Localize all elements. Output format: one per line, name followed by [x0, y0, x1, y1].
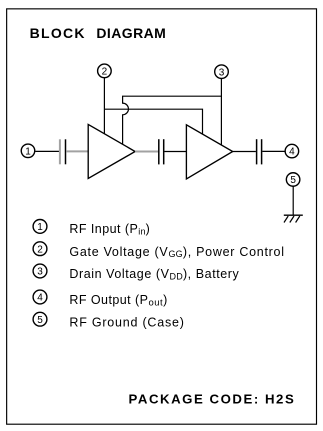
legend pin 4 circle: [33, 290, 47, 304]
node 4: [285, 144, 299, 158]
svg-text:5: 5: [37, 315, 43, 326]
wire VGG branch to A2: [104, 109, 202, 134]
svg-text:3: 3: [219, 67, 225, 78]
node 2: [98, 64, 112, 78]
capacitor C3: [257, 139, 262, 164]
wire C2 to amp A2: [164, 151, 186, 153]
wire VDD branch to A1 with hop over VGG line: [123, 96, 222, 144]
capacitor C1: [60, 139, 66, 164]
svg-text:1: 1: [37, 222, 43, 233]
svg-text:5: 5: [290, 175, 296, 186]
node 3: [215, 65, 229, 79]
wire C3 to node 4: [262, 150, 285, 152]
svg-text:RF Input (Pin): RF Input (Pin): [69, 222, 149, 236]
wire C1 to amp A1: [66, 150, 88, 152]
node 1: [21, 144, 35, 158]
svg-text:4: 4: [289, 147, 295, 158]
capacitor C2: [159, 139, 164, 164]
svg-text:RF Ground (Case): RF Ground (Case): [69, 315, 184, 329]
svg-text:3: 3: [37, 267, 43, 278]
svg-text:2: 2: [102, 67, 108, 78]
svg-text:PACKAGE CODE: H2S: PACKAGE CODE: H2S: [129, 391, 296, 406]
legend pin 2 circle: [33, 242, 47, 256]
legend pin 1 circle: [33, 220, 47, 234]
svg-text:1: 1: [25, 146, 31, 157]
wire A1 to C2: [135, 151, 158, 153]
wire node1 to C1: [35, 150, 59, 152]
legend pin 5 circle: [33, 312, 47, 326]
wire node3 down to A2 drain: [220, 79, 222, 146]
op-amp A2 (second stage): [186, 125, 232, 179]
node 5: [286, 173, 300, 187]
svg-text:Drain Voltage (VDD), Battery: Drain Voltage (VDD), Battery: [69, 267, 239, 281]
svg-text:2: 2: [37, 244, 43, 255]
ground: [284, 215, 303, 222]
op-amp A1 (first stage): [88, 124, 135, 178]
wire node5 to ground: [292, 187, 294, 216]
wire A2 to C3: [233, 151, 256, 153]
svg-text:4: 4: [37, 293, 43, 304]
wire node2 down to A1 gate: [103, 78, 105, 134]
svg-text:BLOCKDIAGRAM: BLOCKDIAGRAM: [30, 25, 167, 41]
legend pin 3 circle: [33, 264, 47, 278]
